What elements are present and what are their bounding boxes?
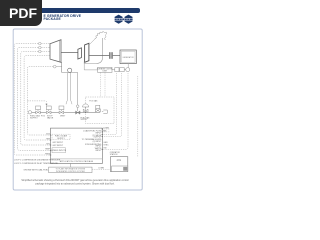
- turbine T1: [50, 40, 61, 63]
- box edge ticks left: [50, 135, 51, 155]
- wire A to turbine: [41, 43, 50, 45]
- svg-text:FCV: FCV: [41, 116, 46, 118]
- gear disc small: [78, 48, 82, 59]
- svg-text:SUPPLY: SUPPLY: [81, 119, 89, 121]
- wire loop D: [24, 56, 50, 140]
- gear disc large: [85, 43, 89, 62]
- svg-text:INPUT: INPUT: [95, 150, 102, 152]
- drop leg bubble: [76, 105, 79, 108]
- fuel supply dashed box: [52, 134, 70, 139]
- valve V1 actuator: [36, 106, 41, 110]
- svg-text:(2) INPUT: (2) INPUT: [93, 141, 103, 143]
- svg-text:GENERATOR: GENERATOR: [122, 56, 134, 59]
- title line 2: [44, 17, 61, 21]
- PDF badge text: [9, 5, 37, 21]
- exhaust duct: [84, 38, 102, 64]
- valve V3: [59, 111, 64, 114]
- tcu signal drops: [100, 73, 102, 98]
- drain header: [62, 72, 78, 74]
- svg-text:APPLICATION CONTROL PACKAGE: APPLICATION CONTROL PACKAGE: [60, 160, 94, 163]
- io stub A: [103, 128, 111, 130]
- wire C to turbine: [41, 51, 50, 53]
- coupling bar 1: [109, 52, 110, 59]
- ics bar: [49, 167, 92, 173]
- valve V1: [36, 111, 41, 114]
- ics connector: [92, 169, 110, 171]
- title line 1: [44, 14, 82, 18]
- svg-text:COMM: COMM: [98, 168, 104, 170]
- PDF badge: [0, 0, 42, 26]
- application control package box: [51, 128, 103, 163]
- instrument bubble gen: [126, 68, 130, 72]
- blowdown valve: [76, 111, 80, 114]
- skid bracket: [103, 110, 107, 113]
- io stub B: [103, 131, 111, 133]
- svg-text:FCV GAS: FCV GAS: [89, 100, 98, 103]
- fuel skid dashed box: [86, 97, 115, 124]
- pipe junction: [85, 112, 86, 113]
- signal drop 1: [103, 73, 117, 135]
- speed inputs box: [52, 148, 66, 153]
- svg-text:SPEED INPUTS: SPEED INPUTS: [51, 150, 66, 152]
- header band: [0, 8, 140, 13]
- wire loop C: [21, 52, 51, 146]
- bell valve actuator: [83, 104, 89, 107]
- valve V2: [46, 111, 51, 114]
- svg-text:VALVE: VALVE: [47, 117, 54, 120]
- turbine drain circle: [68, 68, 72, 72]
- svg-text:INTEGRATED CONTROL SYSTEM: INTEGRATED CONTROL SYSTEM: [56, 170, 85, 173]
- generator drop wire: [127, 64, 129, 70]
- svg-text:LOOP 1 COMPRESSOR DISCHARGE PR: LOOP 1 COMPRESSOR DISCHARGE PRESSURE: [14, 159, 61, 162]
- petrotech logo: [114, 15, 134, 24]
- shaft gear-generator: [89, 55, 109, 57]
- svg-text:SYNC: SYNC: [104, 145, 110, 147]
- exhaust squiggle: [95, 31, 107, 40]
- supply bubble: [28, 111, 31, 114]
- signal drop monitor: [137, 76, 139, 157]
- svg-text:COMM: COMM: [103, 128, 109, 130]
- drain drop leg: [77, 73, 79, 112]
- svg-text:GEN: GEN: [104, 142, 109, 144]
- wire loop A: [14, 44, 50, 155]
- node circle B: [39, 46, 42, 49]
- wire loop E: [27, 67, 53, 135]
- control branch to valve 2: [27, 101, 46, 104]
- schematic drawing: [0, 0, 149, 198]
- instrument line row: [112, 69, 115, 71]
- page frame: [13, 29, 142, 190]
- svg-text:package integrated into an adv: package integrated into an advanced cont…: [35, 183, 115, 186]
- signal drop 2: [103, 73, 122, 137]
- coupling bar 2: [111, 52, 112, 59]
- valve V2 actuator: [46, 106, 51, 110]
- box edge ticks right: [102, 129, 103, 149]
- svg-text:KW: KW: [104, 147, 107, 149]
- fuel valve 2 actuator: [96, 105, 100, 108]
- wire E to drain leg: [56, 66, 61, 68]
- panel box PT: [98, 67, 112, 72]
- generator G1: [120, 50, 136, 64]
- svg-text:Simplified schematic showing a: Simplified schematic showing a Petrotech…: [21, 179, 129, 182]
- wire B to turbine: [41, 47, 50, 49]
- svg-text:GST INPUT: GST INPUT: [53, 142, 64, 144]
- svg-text:GST INPUT: GST INPUT: [53, 145, 64, 147]
- svg-text:TEMP: TEMP: [45, 149, 51, 151]
- svg-text:SUPPLY: SUPPLY: [30, 118, 38, 120]
- node circle A: [39, 42, 42, 45]
- node circle C: [39, 50, 42, 53]
- operator workstation: [110, 157, 127, 172]
- shaft coupling-generator: [113, 55, 120, 57]
- svg-text:SUPPLY: SUPPLY: [57, 138, 65, 140]
- svg-text:SHOWN WITH DUAL FUEL: SHOWN WITH DUAL FUEL: [24, 168, 50, 171]
- drain trumpet left wall: [66, 73, 67, 105]
- lube line: [84, 64, 97, 70]
- svg-text:LOOP 1 COMPRESSOR INLET TEMPER: LOOP 1 COMPRESSOR INLET TEMPERATURE: [14, 162, 59, 165]
- valve V3 actuator: [59, 106, 64, 110]
- relay box 1: [115, 68, 119, 72]
- shaft turbine-gear: [61, 52, 78, 54]
- bell valve: [83, 109, 88, 112]
- svg-text:PRES: PRES: [45, 153, 51, 155]
- fuel valve 2: [95, 109, 100, 112]
- node circle E: [53, 65, 56, 68]
- turbine drain leg: [61, 62, 63, 72]
- svg-text:STATION: STATION: [110, 153, 118, 156]
- drain trumpet right wall: [71, 73, 72, 105]
- svg-text:HMI: HMI: [103, 130, 107, 132]
- signal drop 3: [103, 73, 129, 149]
- svg-text:VENT: VENT: [60, 116, 66, 118]
- steam pipe: [32, 111, 100, 113]
- svg-text:UNIT: UNIT: [102, 71, 107, 73]
- vent diagonal: [89, 38, 96, 45]
- wire loop B: [18, 48, 51, 151]
- relay box 2: [120, 68, 125, 72]
- acp to ics link: [69, 164, 71, 168]
